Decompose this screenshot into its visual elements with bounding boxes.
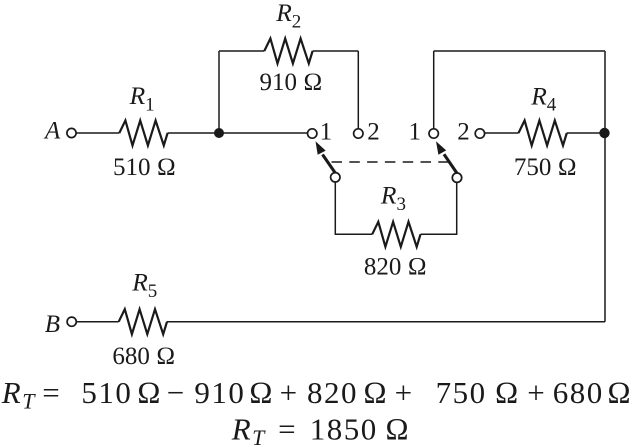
resistor R1 — [119, 121, 167, 146]
right switch terminal 2 — [475, 129, 484, 138]
wire R5 to right side — [167, 321, 605, 323]
svg-text:RT=1850Ω: RT=1850Ω — [231, 412, 411, 447]
resistor R4 — [519, 121, 567, 146]
svg-text:910 Ω: 910 Ω — [260, 69, 323, 96]
svg-text:820 Ω: 820 Ω — [364, 254, 427, 281]
wire R4 to right junction — [567, 132, 605, 134]
svg-text:R5: R5 — [131, 268, 157, 302]
right switch terminal 1 — [429, 129, 438, 138]
wire left pole down to R3 — [335, 182, 372, 234]
svg-text:2: 2 — [457, 119, 470, 146]
left switch pole — [331, 173, 340, 182]
svg-text:R2: R2 — [275, 0, 301, 32]
left switch terminal 1 — [308, 129, 317, 138]
svg-text:750 Ω: 750 Ω — [514, 154, 577, 181]
svg-text:R3: R3 — [380, 181, 406, 215]
svg-text:510 Ω: 510 Ω — [113, 154, 176, 181]
svg-text:B: B — [45, 311, 60, 338]
terminal A — [67, 128, 76, 137]
gang dashed link — [332, 161, 453, 163]
node junction left — [214, 128, 224, 138]
svg-text:R4: R4 — [530, 81, 557, 115]
right switch pole — [452, 173, 461, 182]
wire R2 top right segment — [313, 50, 359, 52]
svg-text:1: 1 — [408, 119, 421, 146]
wire right terminal 2 to R4 — [485, 132, 519, 134]
svg-text:680 Ω: 680 Ω — [112, 343, 175, 370]
wire right switch terminal 1 up — [433, 51, 435, 129]
wire R1 to junction and on to switch terminal 1 — [168, 132, 308, 134]
svg-text:A: A — [43, 118, 61, 145]
svg-text:R1: R1 — [129, 81, 155, 115]
switch arm left — [316, 141, 336, 173]
node junction right — [599, 128, 609, 138]
wire right side down — [604, 51, 606, 322]
wire A to R1 — [76, 132, 119, 134]
wire junction up to R2 branch — [218, 51, 220, 133]
resistor R5 — [119, 309, 167, 334]
wire R2 top left segment — [219, 50, 264, 52]
svg-text:1: 1 — [320, 119, 333, 146]
terminal B — [67, 317, 76, 326]
switch arm right — [436, 141, 457, 173]
wire B to R5 — [76, 321, 118, 323]
svg-text:RT=510Ω−910Ω+820Ω+750Ω+680Ω: RT=510Ω−910Ω+820Ω+750Ω+680Ω — [1, 375, 633, 414]
wire R3 to right pole — [421, 183, 457, 235]
svg-text:2: 2 — [367, 119, 380, 146]
resistor R2 — [264, 39, 312, 64]
left switch terminal 2 — [354, 129, 363, 138]
wire down to switch terminal 2 — [357, 51, 359, 129]
resistor R3 — [372, 222, 420, 247]
wire top right across — [434, 50, 605, 52]
